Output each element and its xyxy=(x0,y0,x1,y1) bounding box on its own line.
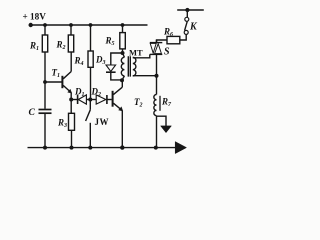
wire diode chain xyxy=(71,99,77,101)
node rail-C xyxy=(43,146,47,150)
transistor T1 xyxy=(61,76,63,88)
wire C bottom xyxy=(44,114,46,148)
node rail-R3 xyxy=(70,146,74,150)
node rail-R4 xyxy=(89,23,93,27)
resistor R6 xyxy=(167,36,180,43)
svg-text:MT: MT xyxy=(129,48,143,58)
wire triac top lead xyxy=(156,40,158,43)
svg-text:R4: R4 xyxy=(74,56,84,68)
diode D1 xyxy=(77,95,79,104)
svg-text:R1: R1 xyxy=(29,41,39,53)
wire R5 bottom xyxy=(122,49,124,53)
wire D3 bottom elbow xyxy=(111,72,122,80)
wire R3 bottom xyxy=(71,130,73,147)
svg-text:T1: T1 xyxy=(52,68,61,80)
svg-text:R5: R5 xyxy=(105,36,115,48)
svg-text:K: K xyxy=(189,22,198,33)
wire R4 top lead xyxy=(90,25,92,51)
svg-text:C: C xyxy=(29,108,36,118)
node rail-R5 xyxy=(121,23,125,27)
wire triac cathode down xyxy=(156,54,158,94)
resistor R1 xyxy=(42,35,47,52)
wire T2 emitter down xyxy=(121,111,123,148)
switch K top feed xyxy=(177,9,204,11)
diode D2 xyxy=(96,95,106,104)
node rail-coil xyxy=(154,146,158,150)
resistor R4 xyxy=(88,51,93,67)
wire R5 top lead xyxy=(122,25,124,33)
triac S xyxy=(150,42,163,44)
wire top rail xyxy=(30,24,148,26)
wire D3 top elbow xyxy=(111,53,123,65)
wire MT secondary bottom xyxy=(133,75,157,77)
svg-text:R7: R7 xyxy=(161,97,172,109)
node rail-T2 xyxy=(120,145,124,149)
node rail-R1 xyxy=(43,23,47,27)
inductor R7 coil xyxy=(154,95,157,116)
svg-text:D3: D3 xyxy=(95,55,106,67)
inductor core bar xyxy=(159,96,161,111)
resistor R3 xyxy=(69,113,75,130)
wire R2 bottom to T1 collector xyxy=(70,52,72,72)
node D1/D2/R4/JW junction xyxy=(88,98,92,102)
wire R6 left to triac xyxy=(157,40,168,43)
svg-text:JW: JW xyxy=(95,117,110,127)
node secondary/cathode junction xyxy=(155,74,159,78)
capacitor C xyxy=(39,110,52,114)
wire coil bottom to rail xyxy=(156,116,158,148)
plunger arrow xyxy=(161,126,172,133)
wire T1 emitter down xyxy=(70,93,72,100)
transformer MT core xyxy=(128,56,130,76)
wire branch to plunger arrow xyxy=(157,116,167,126)
wire R4 bottom xyxy=(90,67,92,99)
wire R3 top lead xyxy=(70,100,72,114)
node T1 base junction xyxy=(43,80,47,84)
transformer MT secondary winding xyxy=(133,57,136,76)
wire R1 bottom to C xyxy=(44,52,46,109)
svg-text:D2: D2 xyxy=(91,87,102,99)
switch JW xyxy=(89,100,91,110)
resistor R2 xyxy=(68,35,73,52)
svg-text:R6: R6 xyxy=(163,27,173,39)
svg-text:R3: R3 xyxy=(57,118,67,130)
resistor R5 xyxy=(120,33,126,49)
wire MT secondary top to triac gate xyxy=(133,54,150,57)
svg-text:R2: R2 xyxy=(56,40,66,52)
node rail-R2 xyxy=(69,23,73,27)
transistor T2 xyxy=(112,91,114,107)
node T1/D1/R3 junction xyxy=(69,98,73,102)
node +18V terminal xyxy=(29,23,33,27)
wire T1 base wire xyxy=(45,81,62,83)
svg-text:S: S xyxy=(164,47,170,58)
wire R1 top lead xyxy=(44,25,46,35)
svg-text:D1: D1 xyxy=(74,87,85,99)
node rail-JW xyxy=(88,146,92,150)
transformer MT primary winding xyxy=(121,53,124,80)
output arrow right xyxy=(175,142,186,154)
svg-text:+ 18V: + 18V xyxy=(23,12,47,22)
wire R2 top lead xyxy=(70,25,72,35)
wire bottom rail xyxy=(28,147,177,149)
wire T2 collector up xyxy=(121,80,123,87)
svg-text:T2: T2 xyxy=(134,97,143,109)
diode D3 xyxy=(106,65,116,71)
node D3/MT/T2 junction xyxy=(120,78,124,82)
node R5/D3/MT junction xyxy=(121,51,125,55)
